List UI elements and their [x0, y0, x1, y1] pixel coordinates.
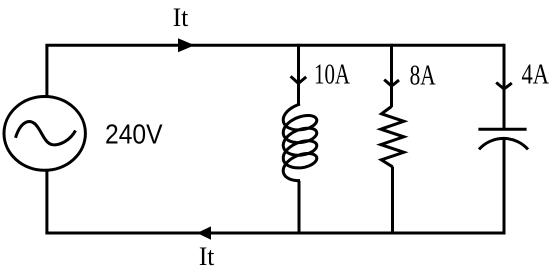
svg-text:8A: 8A: [410, 60, 437, 91]
branch current arrowhead 10A (chevron): [291, 76, 307, 83]
wire: left vertical (source bottom to bottom rail): [45, 171, 48, 234]
capacitor C1 top plate: [478, 128, 526, 131]
branch current arrowhead 8A (chevron): [384, 80, 399, 86]
svg-text:240V: 240V: [105, 119, 163, 150]
AC source V1 circle: [4, 96, 85, 170]
branch current arrowhead 4A (chevron): [496, 83, 512, 90]
capacitor C1 curved bottom plate: [479, 138, 528, 149]
resistor R1 zigzag: [381, 107, 404, 167]
wire: left vertical (top rail down to source top): [45, 45, 48, 96]
wire: top rail: [45, 44, 504, 47]
inductor L1 coil: [283, 104, 317, 181]
svg-text:It: It: [199, 242, 215, 271]
svg-text:4A: 4A: [522, 60, 550, 91]
current arrow It top (filled, right-pointing): [178, 38, 195, 52]
wire: bottom rail: [45, 232, 505, 235]
wire: capacitor branch lower: [503, 137, 506, 235]
svg-text:It: It: [173, 3, 189, 32]
current arrow It bottom (filled, left-pointing): [197, 226, 211, 239]
wire: inductor branch bottom: [298, 181, 301, 235]
wire: resistor branch bottom: [391, 167, 394, 235]
svg-text:10A: 10A: [314, 60, 351, 91]
AC source V1 sine symbol: [16, 122, 76, 145]
wire: resistor branch top drop: [390, 44, 393, 107]
wire: capacitor branch upper (right side): [503, 44, 506, 129]
wire: inductor branch top drop: [297, 44, 300, 105]
